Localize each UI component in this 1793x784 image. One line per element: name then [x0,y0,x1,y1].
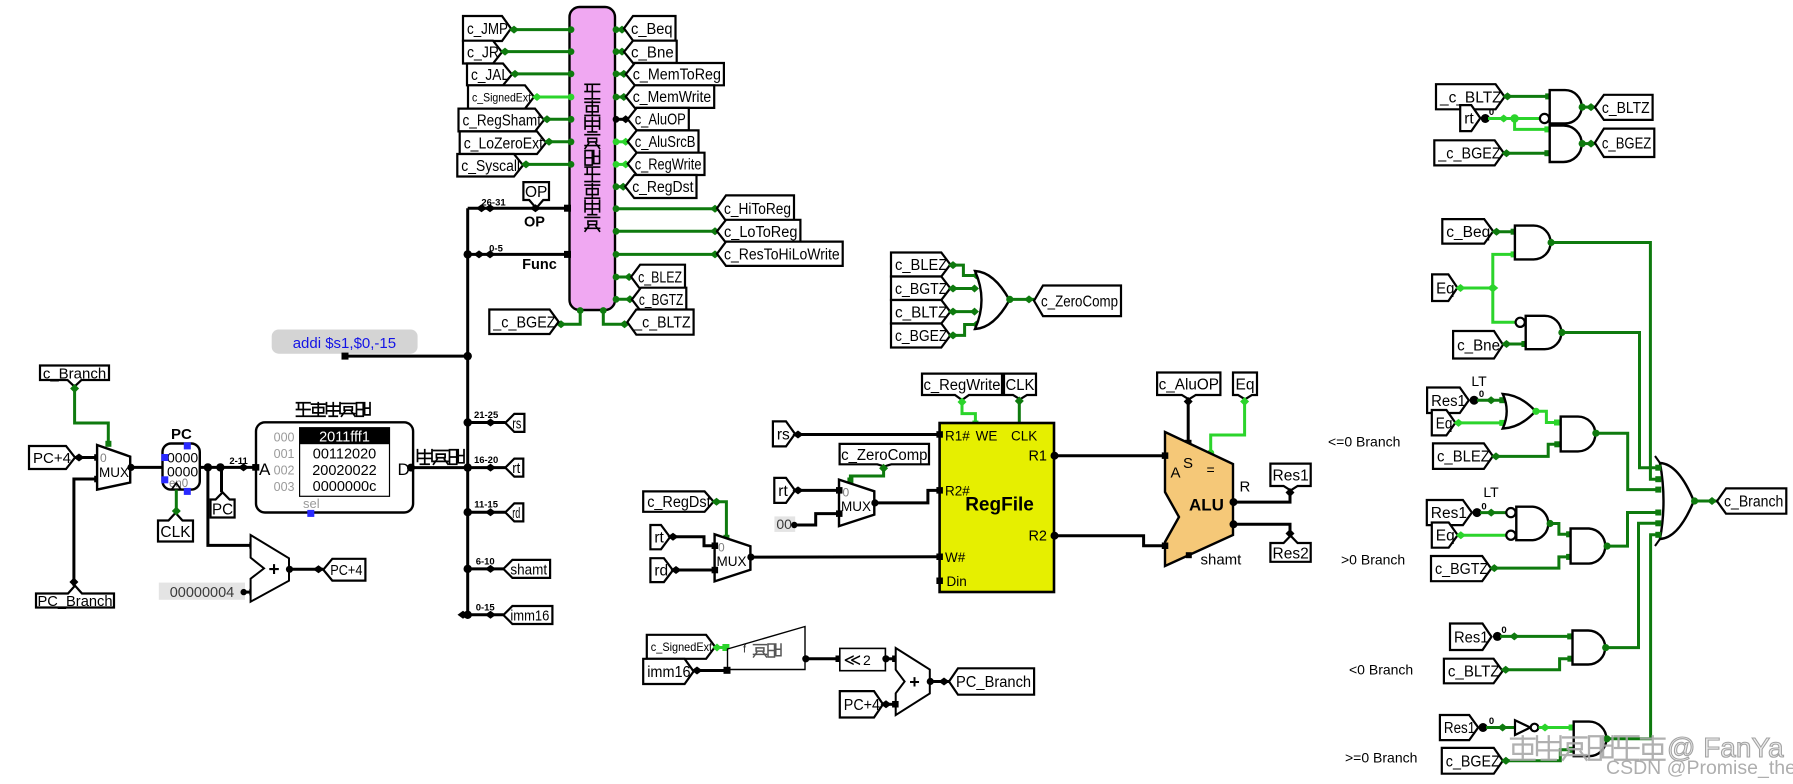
node c_Syscall [521,160,531,168]
svg-text:c_Beq: c_Beq [1446,224,1490,241]
tunnel _c_BGEZ (out) [489,310,558,335]
node or5 in1 [1486,396,1496,404]
wire 00 to mux3 [794,514,839,525]
label instr mem title [297,403,311,417]
mux MUX3 regnum [839,480,874,526]
svg-text:R: R [1240,479,1251,496]
svg-text:rd: rd [512,505,520,522]
svg-text:rt: rt [1464,111,1474,128]
svg-text:rs: rs [512,415,521,432]
wire OP row [468,207,570,210]
svg-text:Eq: Eq [1436,415,1453,432]
tunnel CLK (regfile) [1004,374,1036,400]
tunnel rt [505,459,523,477]
svg-text:c_BGTZ: c_BGTZ [1435,561,1488,578]
tunnel PC (adder input) [211,492,235,517]
svg-text:0: 0 [1481,502,1486,513]
node g2 in1 [1544,126,1550,132]
svg-text:c_ResToHiLoWrite: c_ResToHiLoWrite [724,246,840,263]
svg-text:c_BLEZ: c_BLEZ [638,269,682,286]
wire tap rd [468,511,506,514]
svg-text:2-11: 2-11 [229,456,248,467]
wire res1 to g7 [1480,511,1507,514]
svg-text:Res1: Res1 [1444,720,1475,737]
tunnel OP [523,182,549,208]
tunnel c_Bne [1453,331,1503,359]
tunnel rd [505,503,523,521]
node g7 out [1547,520,1554,527]
wire imm16 to extender [694,669,728,672]
node res1 bit0 d [1479,723,1488,732]
wire zerocomp to mux3 [850,466,883,480]
svg-text:PC_Branch: PC_Branch [38,593,113,610]
wire shifter to adder2 [886,657,896,660]
tunnel c_BGTZ [632,288,686,312]
node add2 inA [892,656,899,663]
node OP row [476,204,487,212]
wire g7 to g8 [1550,524,1569,535]
wire _c_BLTZ to AND [1505,95,1548,98]
tunnel Eq (alu) [1233,373,1257,400]
svg-text:Eq: Eq [1436,528,1455,545]
svg-text:26-31: 26-31 [481,197,506,208]
tunnel c_RegWrite [628,153,705,175]
node aluop pin [1185,440,1192,447]
node bigOR out [1691,497,1698,504]
wire c_ResToHiLoWrite from control unit [615,253,717,256]
wire Func row [468,253,570,256]
wire g6 to bigOR [1596,433,1657,489]
node rt junction [1499,115,1509,123]
tunnel shamt [503,560,550,578]
svg-text:PC: PC [171,426,192,443]
node c_LoToReg [613,228,620,235]
wire R2 to ALU B [1055,536,1166,546]
node pc+4 diamond [313,565,324,573]
node zerocomp out [1006,296,1013,303]
node rs diamond [793,431,804,439]
node res2 diamond [1286,529,1295,538]
node add2 inB [892,701,899,708]
svg-text:c_ZeroComp: c_ZeroComp [1041,293,1118,310]
tunnel Eq (branch) [1432,274,1457,301]
mem sel handle [307,510,314,517]
tunnel CLK (PC clock) [158,513,193,542]
svg-text:c_MemToReg: c_MemToReg [633,67,721,84]
svg-text:0000000c: 0000000c [313,479,377,495]
svg-text:21-25: 21-25 [474,410,499,421]
wire not to g10 [1539,726,1572,729]
watermark csdn [1606,757,1793,779]
svg-text:c_LoZeroExt: c_LoZeroExt [464,135,544,152]
svg-text:PC_Branch: PC_Branch [956,674,1031,691]
wire c_RegWrite from control unit [615,163,628,166]
node g4 in2 [1521,341,1527,347]
or-gate G11 (branch combine) [1660,463,1694,539]
wire c_JAL to control unit [512,72,570,75]
wire c_BGTZ from control unit [615,298,632,301]
node adder1 out [286,566,293,573]
and-gate G1 (BLTZ) [1550,90,1582,123]
svg-text:rt: rt [654,530,664,547]
wire c_RegShamt to control unit [544,118,570,121]
svg-text:c_RegShamt: c_RegShamt [463,113,542,130]
node g6 in2 [1554,441,1560,447]
node g5 out [1532,408,1539,415]
node tap rs [485,419,496,427]
wire c_LoToReg from control unit [615,230,717,233]
wire tap shamt [468,567,504,570]
wire stub _c_BLTZ [603,310,627,324]
and-gate G7 (!lt&!eq) [1516,507,1548,541]
svg-text:20020022: 20020022 [312,463,377,479]
selection handles PC [184,442,191,449]
tunnel c_RegWrite [922,374,1002,400]
svg-text:0-15: 0-15 [476,602,496,613]
tunnel c_Beq [1442,219,1493,244]
svg-text:c_SignedExt: c_SignedExt [472,90,532,104]
node g9 in2 [1567,656,1573,662]
wire rs to R1# [795,433,940,436]
svg-text:_c_BLTZ: _c_BLTZ [1439,89,1502,106]
and-gate G10 (bgez) [1574,722,1607,757]
node bus junctions [464,250,472,258]
svg-text:CLK: CLK [160,524,191,541]
node mux2 sel pin [723,535,729,541]
svg-text:rd: rd [654,563,668,580]
node regfile pins [936,431,943,438]
node c_BLTZ zc [948,308,958,316]
node c_JAL [510,70,520,78]
wire PC_Branch to MUX [74,479,97,586]
svg-text:+: + [268,560,279,581]
svg-text:R2: R2 [1028,529,1047,545]
wire rt bit0 [1488,117,1539,120]
node Func row [474,250,485,258]
tunnel c_LoZeroExt [460,131,546,154]
wire instr word D to bus [411,466,468,469]
wire c_Bne from control unit [615,50,624,53]
tunnel Res1 (bltz) [1450,624,1492,651]
tunnel Eq (bgtz) [1432,523,1458,548]
svg-text:_c_BGEZ: _c_BGEZ [1437,145,1500,162]
node eq pin [1207,449,1214,456]
node c_HiToReg [613,205,620,212]
wire c_JR to control unit [502,50,570,53]
svg-text:PC: PC [212,501,233,518]
tunnel _c_BGEZ (in) [1434,140,1503,165]
bubble g4 in1 [1516,318,1525,327]
tunnel _c_BLTZ (in) [1436,84,1505,109]
tunnel PC_Branch (mux input) [36,586,114,608]
node g3 in1 [1511,229,1517,235]
node c_AluSrcB [613,138,620,145]
node not diamond [1498,724,1508,732]
register PC [163,444,200,490]
node g8 in1 [1566,531,1572,537]
node g1 out diamond [1586,103,1596,111]
svg-text:0: 0 [100,451,107,465]
svg-text:c_RegDst: c_RegDst [647,494,711,511]
tunnel c_Branch (PC mux select) [40,366,109,387]
node c_RegShamt [542,115,552,123]
node addi anchor [342,353,349,360]
node g1 out [1579,104,1586,111]
wire OR to c_ZeroComp [1010,298,1034,301]
svg-text:LT: LT [1471,373,1487,389]
tunnel c_MemWrite [626,85,714,108]
node g2 out [1579,140,1586,147]
tunnel c_BLTZ (branch) [1444,659,1503,684]
tunnel c_BLEZ [631,265,685,289]
shifter <<2 [840,648,886,670]
tunnel c_LoToReg [717,220,800,243]
tunnel c_BLEZ (zerocomp in) [891,253,950,277]
node g8 out [1604,543,1611,550]
node ext out [802,655,809,662]
wire rt to mux2 [670,537,715,546]
svg-text:c_BGEZ: c_BGEZ [1446,753,1500,770]
svg-text:c_JAL: c_JAL [471,67,509,84]
node res1 bit0 c [1493,632,1502,641]
node c_BLEZ [613,274,620,281]
node c_BLEZ zc [948,261,958,269]
wire g5 to g6 [1536,411,1557,422]
watermark juejin [1511,732,1784,763]
wire bigOR to c_Branch [1695,500,1717,503]
wire CLK to regfile [1018,399,1021,422]
svg-text:<=0 Branch: <=0 Branch [1328,434,1400,450]
node g9 in1 [1509,632,1519,640]
tunnel rs [505,414,524,432]
node c_BGEZ zc [948,331,958,339]
wire c_AluOP to ALU [1187,399,1190,442]
wire Eq to ALU [1211,399,1245,452]
node g10 out [1603,735,1610,742]
extender 扩展 [728,627,806,670]
svg-text:c_AluOP: c_AluOP [1159,377,1219,394]
tunnel c_AluSrcB [628,130,699,152]
tunnel Eq (blez) [1432,410,1456,435]
wire Eq to g3 [1493,254,1514,288]
svg-text:c_RegWrite: c_RegWrite [924,377,1001,394]
svg-text:c_BLTZ: c_BLTZ [1448,664,1500,681]
svg-text:_c_BGEZ: _c_BGEZ [492,314,555,331]
or-gate ZeroComp [975,271,1010,329]
tunnel rt (mux2 in) [650,525,670,549]
node g2 in2 [1544,150,1550,156]
node branch diamond [1707,497,1717,505]
svg-text:c_BLTZ: c_BLTZ [895,304,947,321]
svg-text:c_HiToReg: c_HiToReg [724,201,791,218]
svg-text:PC+4: PC+4 [330,562,362,579]
wire c_Beq to G3 [1493,230,1513,233]
node mux3 sel pin [847,478,853,484]
wire c_LoZeroExt to control unit [546,140,570,143]
node g10 in1 [1569,725,1575,731]
tunnel c_JAL [467,64,512,86]
svg-text:000: 000 [274,431,295,445]
node add2 out [927,678,934,685]
wire adder1 to PC+4 tunnel [290,568,324,571]
node WE pin [972,421,978,427]
wire PC+4 to MUX [75,456,97,459]
wire g9 to bigOR [1606,523,1657,647]
wire g4 to bigOR [1562,333,1657,468]
node pc out junctions [204,463,212,471]
svg-text:001: 001 [274,447,295,461]
svg-text:MUX: MUX [841,499,871,514]
svg-text:shamt: shamt [1201,552,1243,569]
svg-text:imm16: imm16 [647,664,690,681]
svg-text:Func: Func [522,257,557,273]
node or5 in2 [1499,420,1505,426]
wire c_RegWrite to WE [962,400,975,423]
svg-text:CLK: CLK [1006,377,1036,394]
tunnel Res1 (bgtz) [1427,500,1472,525]
tunnel c_AluOP [628,108,689,130]
node g9 out [1602,644,1609,651]
svg-text:R1: R1 [1028,449,1047,465]
wire signext to extender [715,646,726,649]
svg-text:c_AluOP: c_AluOP [635,112,686,129]
wire g3 to bigOR [1551,243,1656,480]
svg-text:Eq: Eq [1236,377,1255,394]
node rt splitter [1481,114,1490,123]
svg-text:LT: LT [1483,484,1499,500]
tunnel c_BGEZ (branch) [1442,748,1503,774]
wire eq to or5 [1455,421,1502,424]
svg-text:_c_BLTZ: _c_BLTZ [633,315,690,332]
svg-text:addi $s1,$0,-15: addi $s1,$0,-15 [293,335,396,352]
wire vertical instr bus [466,208,469,615]
wire _c_BGEZ to AND [1504,152,1548,155]
node tap imm16 [485,611,496,619]
tunnel c_BLTZ (out) [1595,95,1653,120]
svg-text:CSDN @Promise_then: CSDN @Promise_then [1606,757,1793,779]
wire c_Branch to MUX select [75,387,109,444]
wire R1 to ALU A [1055,454,1166,457]
svg-text:S: S [1183,455,1193,472]
node tap rd [485,508,496,516]
tunnel c_RegDst [625,175,696,198]
svg-text:c_BGTZ: c_BGTZ [895,281,947,298]
tunnel c_BGTZ (zerocomp in) [891,277,950,301]
node shift out [882,655,889,662]
svg-text:c_BGEZ: c_BGEZ [1602,135,1651,152]
wire g10 to bigOR [1607,535,1657,739]
wire Eq net [1457,287,1492,290]
node stub dots [577,307,584,314]
svg-text:Res1: Res1 [1273,468,1309,485]
tunnel c_ResToHiLoWrite [717,242,843,266]
svg-text:Res2: Res2 [1273,545,1309,562]
tunnel c_Branch (out) [1717,488,1786,513]
tunnel c_Syscall [457,154,523,177]
node c_ResToHiLoWrite [613,251,620,258]
svg-text:c_LoToReg: c_LoToReg [724,224,797,241]
node mux2 out [747,554,754,561]
svg-text:c_SignedExt: c_SignedExt [651,640,713,654]
wire eq to g7 [1458,534,1507,537]
svg-text:sel: sel [303,496,320,511]
node c_MemToReg [613,71,620,78]
wire c_JMP to control unit [511,28,570,31]
node g6 out [1592,430,1599,437]
wire res1LT to or5 [1477,399,1502,402]
svg-text:c_BGEZ: c_BGEZ [895,328,947,345]
node ext in [724,667,731,674]
svg-text:6-10: 6-10 [476,556,495,567]
wire adder2 to PC_Branch [930,680,949,683]
wire rd to mux2 [673,569,715,572]
node g7 in2 [1456,531,1466,539]
svg-text:c_Branch: c_Branch [1724,494,1783,511]
node c_RegWrite [613,161,620,168]
svg-text:MUX: MUX [717,554,747,569]
svg-text:c_BGTZ: c_BGTZ [639,292,683,309]
wire PC to adder1 [208,467,253,545]
svg-text:rt: rt [778,483,788,500]
node eq junction [1487,284,1498,293]
and-gate G3 (beq&eq) [1515,226,1551,260]
svg-text:c_MemWrite: c_MemWrite [633,89,711,106]
svg-text:>0 Branch: >0 Branch [1341,552,1405,568]
svg-text:c_BLTZ: c_BLTZ [1602,100,1650,117]
node tap shamt [485,565,496,573]
svg-text:≪: ≪ [844,651,862,670]
wire tap rs [468,421,506,424]
svg-text:MUX: MUX [99,465,129,480]
wire c_BLTZ to g9 [1503,659,1571,670]
svg-text:rs: rs [777,427,790,444]
node bigOR inputs [1655,465,1661,471]
mux MUX1 PC source [97,445,130,490]
node alu pins [1162,452,1169,459]
svg-text:00112020: 00112020 [313,446,376,462]
control unit 单周期硬布线控制器 [570,7,616,310]
label addi instruction [272,330,418,354]
svg-text:A: A [259,460,271,479]
svg-text:0: 0 [1489,107,1494,118]
node tap rt [485,464,496,472]
wire c_Bne to g4 [1503,343,1524,346]
adder ADD1 PC+4 [251,535,289,602]
wire c_BLTZ to OR [950,310,974,313]
tunnel c_Bne [624,41,677,63]
svg-text:0: 0 [718,541,725,555]
svg-text:0: 0 [1489,716,1494,727]
wire res1 to g9 [1500,635,1570,638]
svg-text:002: 002 [274,463,295,477]
node res1 bit0 b [1473,508,1482,517]
svg-text:00: 00 [776,516,792,532]
node adder1 in A [249,542,256,549]
node c_BGTZ zc [948,285,958,293]
svg-text:OP: OP [524,215,545,231]
wire g8 to bigOR [1607,513,1656,547]
constant 00 [774,516,795,532]
svg-text:0: 0 [1479,389,1484,400]
wire addi anchor to bus [346,355,467,358]
wire c_HiToReg from control unit [615,207,717,210]
and-gate G8 (bgtz) [1571,529,1606,564]
node c_BGTZ [613,296,620,303]
svg-text:Eq: Eq [1436,280,1454,297]
or-gate G5 (lt|eq) [1503,394,1536,429]
svg-text:2: 2 [863,652,871,668]
node g7 diamond [1486,509,1496,517]
